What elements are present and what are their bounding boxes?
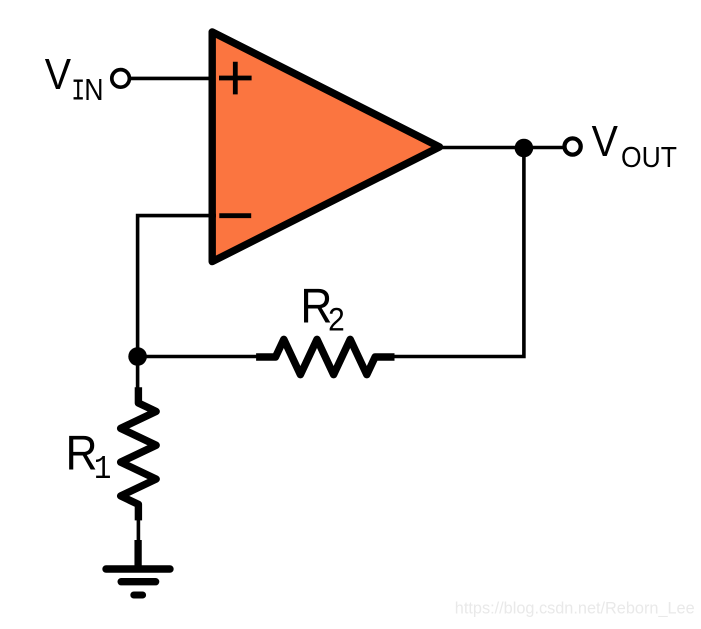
wire: [138, 216, 216, 357]
svg-text:V: V: [45, 51, 71, 99]
wire: [395, 148, 524, 357]
wire: [131, 77, 214, 81]
label V_OUT: [592, 118, 677, 174]
wire: [138, 355, 257, 359]
node junction: [128, 347, 147, 366]
svg-text:N: N: [84, 73, 103, 107]
svg-text:OUT: OUT: [621, 142, 677, 174]
wire: [136, 357, 140, 389]
op-amp plus input marker: [219, 62, 252, 95]
label V_IN: [45, 51, 104, 110]
resistor R2: [256, 339, 394, 374]
svg-text:V: V: [592, 118, 618, 166]
svg-text:I: I: [71, 76, 85, 110]
label R2: [300, 279, 344, 338]
svg-text:1: 1: [94, 451, 112, 489]
node junction: [515, 139, 534, 158]
svg-text:2: 2: [328, 302, 345, 338]
svg-text:https://blog.csdn.net/Reborn_L: https://blog.csdn.net/Reborn_Lee: [455, 600, 695, 618]
terminal V_IN: [112, 70, 130, 88]
svg-text:R: R: [66, 425, 98, 480]
op-amp U1: [212, 32, 439, 262]
terminal V_OUT: [565, 138, 581, 154]
label R1: [66, 425, 112, 489]
op-amp minus input marker: [219, 213, 251, 218]
resistor R1: [121, 387, 156, 520]
wire: [441, 146, 564, 150]
wire: [137, 519, 141, 542]
ground: [106, 540, 170, 595]
